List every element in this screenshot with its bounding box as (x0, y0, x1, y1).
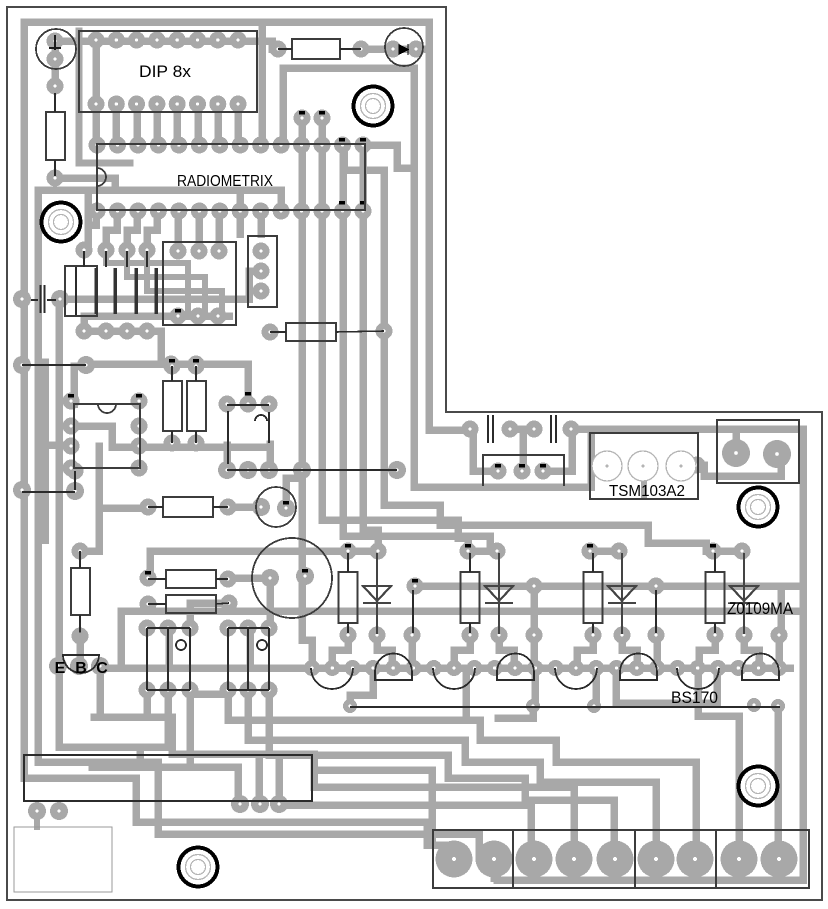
capacitor C3 (488, 415, 493, 443)
resistor Rc2 body (461, 572, 480, 623)
wire ch1 gate stub (408, 635, 416, 668)
wire ch2 elbow b (499, 635, 514, 668)
resistor R9 body (71, 568, 90, 615)
transistor arc S2 (433, 668, 475, 689)
pad row y331 (76, 323, 156, 340)
connector J3 body (483, 455, 564, 486)
svg-text:DIP 8x: DIP 8x (139, 62, 192, 81)
wire dip pin5 drop (173, 104, 181, 145)
pin1 marks (68, 111, 716, 583)
connector J1 body (433, 830, 809, 888)
lead x269 col (268, 628, 270, 690)
lead ch1 gate (412, 590, 414, 633)
capacitor C4 (551, 415, 556, 443)
lead J2 d (146, 251, 148, 267)
lead via y471 (74, 471, 76, 490)
wire cap link (509, 425, 536, 433)
lead R2 top (54, 93, 56, 112)
silk line y364 (22, 364, 86, 366)
pad row y364 (163, 356, 205, 373)
mounting hole H5 (179, 848, 218, 887)
wire crystal up (286, 478, 300, 505)
lead R4 top (195, 366, 197, 381)
transistor arc S1 (311, 668, 353, 689)
pads box3 top (170, 243, 228, 260)
lead trio (227, 411, 229, 464)
resistor Rc3 body (584, 572, 603, 623)
wire ch1 elbow a (332, 635, 348, 668)
pad row y249 (76, 242, 156, 259)
silk circle b (257, 640, 267, 650)
svg-text:TSM103A2: TSM103A2 (609, 483, 685, 500)
lead x228 col (227, 628, 229, 690)
lead R3 bottom (171, 431, 173, 443)
svg-text:RADIOMETRIX: RADIOMETRIX (177, 173, 273, 190)
module U2 notch (97, 168, 106, 186)
resistor Rc1 body (339, 572, 358, 623)
IC U6 TSM103A2 body (590, 433, 698, 499)
wire ch3 gate stub (653, 635, 661, 668)
wire box5 feed a (473, 428, 498, 471)
pads trio y404 (219, 396, 278, 413)
wire mid net y507 (228, 503, 261, 511)
svg-text:B: B (75, 660, 87, 677)
wire bundle x363 to ch1b (363, 145, 378, 551)
wire bigpad stub (490, 858, 498, 878)
wire right col b (774, 708, 782, 852)
lead R5 left (270, 331, 286, 333)
pad row ch y635 (340, 627, 788, 644)
pads R5 (262, 323, 393, 341)
pads left rail (13, 290, 95, 500)
diode D2 (485, 553, 513, 634)
wire long y551 (150, 551, 378, 578)
wire long y668 (107, 664, 790, 672)
wire box3 stub1 (174, 211, 182, 251)
wire dip pin8 drop (234, 104, 242, 145)
wire stub trio2 (255, 754, 263, 802)
wire conn pad up (732, 430, 740, 453)
wire stub E1 (94, 694, 147, 717)
lead trio right (268, 412, 270, 443)
wire ch2 elbow a (454, 635, 470, 668)
wire row4 stub2 (106, 211, 117, 250)
wire radio pads y178 (55, 178, 115, 190)
pads box4 (253, 243, 270, 300)
IC U5 body (74, 404, 140, 468)
wire stub pad37 (34, 811, 40, 827)
pad row RADIOMETRIX top (89, 137, 372, 154)
lead Rc1 bottom (347, 623, 349, 633)
wire stub E3 (92, 694, 190, 767)
resistor R2 body (46, 112, 65, 160)
wire ch4 gate stub (775, 635, 783, 668)
wire row4 stub1 (88, 211, 96, 225)
lead Rc4 top (714, 553, 716, 572)
wire ch1 elbow b (377, 635, 392, 668)
pads crystal (252, 498, 295, 517)
diode D3 (608, 553, 636, 634)
wire trace T2 (283, 68, 414, 168)
wire y586 feed ch2 (530, 586, 538, 635)
pads caps row (462, 421, 580, 438)
transistor Q2 outline (375, 654, 412, 681)
pad row y668 (304, 660, 787, 676)
silk line y707 (350, 706, 780, 708)
IC U5 notch (98, 404, 116, 413)
wire snake trio3 (279, 754, 531, 856)
pad via y471 (67, 463, 84, 480)
wire bottom-right feed 2 (248, 694, 656, 856)
pad row y628 (139, 620, 278, 637)
wire ch2 pair (468, 547, 497, 555)
pads R3 R4 (164, 358, 205, 452)
wire circle C1 link (51, 41, 59, 86)
wire dip pin1 col (92, 40, 100, 104)
wire tsm link (697, 456, 781, 476)
silk circle a (176, 640, 186, 650)
diode mark D5 (49, 35, 61, 50)
resistor R7 body (166, 570, 216, 588)
wire R8 link (190, 603, 229, 628)
wire stub E2 (59, 694, 168, 747)
silk line y405 (227, 404, 269, 406)
diode D4 (730, 553, 758, 634)
pads R6 row (140, 499, 237, 516)
wire col 169 (165, 628, 173, 668)
wire U 616-717 (616, 668, 717, 703)
pads big circle (261, 567, 314, 587)
lead R1 left (278, 48, 292, 50)
wire bundle x343 to ch2b (343, 145, 497, 551)
diode D1 (363, 553, 391, 634)
lead J2 a (83, 251, 85, 267)
pad row connector (436, 841, 798, 878)
wire ch4 elbow b (744, 635, 759, 668)
wire dip pin7 drop (214, 104, 222, 145)
wire long y611 (121, 611, 801, 668)
wire cap1 net y299 (60, 271, 261, 299)
lead x147 col (146, 628, 148, 690)
lead J2 c (126, 251, 128, 267)
lead Rc3 bottom (592, 623, 594, 633)
lead R8 right (216, 603, 229, 604)
svg-text:BS170: BS170 (671, 688, 718, 707)
pads box3 bottom (170, 308, 227, 325)
pads terminal TR (722, 439, 791, 468)
wire bundle x302 (302, 118, 312, 668)
pads pair y811 (28, 802, 68, 820)
pads C1 column (47, 33, 64, 187)
silk box bottom-left (14, 827, 112, 892)
transistor Q3 outline (497, 654, 534, 681)
lead J2 b (105, 251, 107, 267)
wire B feed (76, 636, 84, 666)
pad row ch y551 (340, 543, 751, 560)
lead ch3 gate (655, 590, 657, 633)
lead R3 top (171, 366, 173, 381)
pad row y690 (139, 682, 278, 699)
lead Rc4 bottom (714, 623, 716, 633)
wire resistor link y49 (363, 45, 429, 53)
wire ch3 elbow a (577, 635, 593, 668)
wire ch3 pair (590, 547, 619, 555)
wire left rail D (41, 362, 49, 540)
transistor Q1 outline EBC (63, 655, 99, 673)
wire net y316 (84, 316, 229, 331)
wire ch3 elbow b (622, 635, 637, 668)
pads R7 R8 (140, 570, 238, 613)
wire main loop right (497, 429, 803, 880)
silk box bottom (24, 755, 312, 801)
svg-text:C: C (96, 660, 108, 677)
lead Rc2 top (469, 553, 471, 572)
wire row4 drop 240 (236, 190, 244, 234)
silk line y470 (227, 469, 397, 471)
component U4 body (248, 236, 277, 307)
wire ebc resistor col (84, 446, 148, 551)
pad pair vias (294, 110, 331, 127)
terminal J4 body (717, 420, 799, 483)
resistor R3 body (163, 381, 182, 431)
lead R1 right (340, 48, 361, 50)
wire col 250 (246, 628, 254, 668)
resistor R8 body (166, 595, 216, 613)
connector J2 pin bars (96, 268, 156, 314)
wire drop 535 (531, 668, 539, 706)
resistor R1 body (292, 39, 340, 59)
wire snake D (100, 666, 454, 858)
wire long y586 (415, 582, 801, 590)
wire snake D2 (314, 770, 574, 856)
mounting hole H1 (42, 203, 81, 242)
silk line y492 (22, 491, 75, 493)
wire net y364 (86, 364, 248, 404)
pads R1 row (270, 41, 425, 58)
wire mid net y445 (266, 444, 274, 470)
lead R9 bottom (79, 615, 81, 634)
pads box5 (490, 463, 552, 480)
component circle Y1 (256, 487, 296, 527)
lead Rc1 top (347, 553, 349, 572)
lead R6 left (148, 506, 163, 508)
wire DIP left col (79, 31, 130, 163)
svg-text:E: E (55, 660, 66, 677)
wire net y190 (38, 190, 281, 211)
wire bundle x322 to ch2a (322, 118, 468, 551)
resistor Rc4 body (706, 572, 725, 623)
wire elbow 533 (498, 706, 533, 718)
lead R7 right (216, 578, 228, 580)
lead x190 col (189, 628, 191, 690)
component circle D6 (385, 28, 423, 66)
connector J2 body (65, 266, 97, 316)
pads IC2 right (131, 393, 148, 477)
IC U1 DIP 8x body (79, 31, 257, 112)
svg-text:Z0109MA: Z0109MA (727, 599, 794, 618)
transistor Q4 outline (620, 654, 657, 681)
wire left rail B (38, 191, 492, 858)
wire bundle x384 to ch4 (344, 145, 744, 551)
wire dip pin2 drop (112, 104, 120, 145)
lead x248 col (247, 628, 249, 690)
wire bundle x414 up (364, 145, 591, 487)
lead Rc2 bottom (469, 623, 471, 633)
diode mark D6 (399, 44, 408, 55)
wire drop 373 (350, 668, 373, 705)
wire dip pin4 drop (153, 104, 161, 145)
transistor arc S4 (677, 668, 719, 689)
resistor R4 body (187, 381, 206, 431)
resistor R6 body (163, 497, 213, 517)
wire dip pin1 drop (92, 104, 100, 145)
U6 lens circles (592, 451, 696, 481)
transistor arc S3 (555, 668, 597, 689)
wire ch4 elbow a (699, 635, 715, 668)
wire ic2 net (70, 426, 270, 447)
wire nested L2 (127, 250, 205, 316)
wire box3 stub2 (195, 211, 203, 251)
pad row DIP bottom (88, 96, 247, 113)
wire box5 feed b (543, 428, 572, 471)
wire y586 feed ch4 (777, 588, 785, 635)
wire bottom-right feed 1 (228, 694, 696, 856)
module U2 RADIOMETRIX body (97, 144, 365, 210)
silk line y628 b (228, 627, 269, 629)
wire R7 link (229, 574, 270, 582)
lead R7 left (148, 578, 166, 580)
lead R5 right (336, 331, 384, 332)
wire box4 stub2 (257, 211, 265, 234)
lead x168 col (167, 628, 169, 690)
wire ic2 feed (74, 366, 86, 404)
component circle C1 (36, 29, 76, 69)
wire circle drop (266, 578, 274, 628)
wire bottom-right feed 3 (269, 694, 614, 856)
wire ic2 left feed (45, 441, 70, 449)
mounting hole H2 (354, 87, 393, 126)
component circle Q8 big (252, 538, 332, 618)
wire row4 stub3 (127, 211, 137, 250)
wire net y191 drop (84, 190, 92, 246)
wire box5 feed c (519, 430, 527, 471)
lead R4 bottom (195, 431, 197, 443)
wire box3 stub3 (215, 211, 223, 251)
lead R6 right (213, 506, 228, 508)
lead R2 bottom (54, 160, 56, 176)
resistor R5 body (286, 323, 336, 341)
wire drop 596 (592, 668, 600, 706)
wire mid stub x224 (223, 445, 231, 470)
wire left rail A (24, 22, 427, 845)
wire left rail C (59, 300, 238, 802)
connector J2 inner (75, 267, 77, 315)
pads trio y469 (218, 461, 406, 479)
silk line y690 b (228, 689, 269, 691)
lead Rc3 top (592, 553, 594, 572)
wire dip out link (262, 41, 278, 49)
wire nested L3 (147, 250, 222, 316)
pads silk line y707 (343, 698, 785, 713)
pads y586 (407, 578, 665, 595)
wire link row2 (190, 690, 228, 698)
pads R9 col (72, 543, 89, 645)
wire dip pin3 drop (133, 104, 141, 145)
mounting hole H3 (739, 488, 778, 527)
wire net y331 (84, 331, 161, 364)
silk line y690 a (147, 689, 190, 691)
wire drop 466 (462, 668, 470, 716)
silk line y628 a (147, 627, 190, 629)
wire top dip row1 (55, 25, 262, 145)
pad row DIP top (88, 32, 247, 49)
wire dip pin6 drop (194, 104, 202, 145)
lead R9 top (79, 551, 81, 568)
pads IC2 left (63, 393, 80, 477)
wire main loop top (24, 22, 473, 430)
wire row4 stub4 (147, 211, 157, 250)
mounting hole H4 (739, 767, 778, 806)
wire right col a (698, 668, 739, 852)
wire nested L1 (106, 250, 188, 316)
pads trio y804 (231, 795, 288, 813)
wire tsm lead mid (641, 468, 647, 495)
pad row RADIOMETRIX bottom (89, 203, 372, 220)
transistor arc Q7 (255, 415, 267, 421)
pads EBC (49, 657, 109, 675)
IC U3 body (163, 242, 236, 325)
wire ch2 gate stub (530, 635, 538, 668)
pad TSM out (689, 457, 706, 474)
lead R8 left (148, 603, 166, 605)
transistor Q5 outline (742, 654, 779, 681)
capacitor C2 (31, 285, 56, 313)
